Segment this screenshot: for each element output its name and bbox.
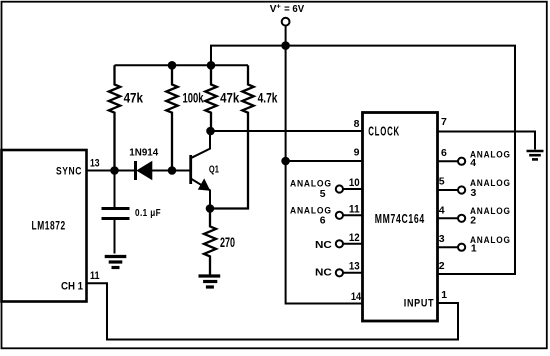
- ground (capacitor): [105, 257, 127, 268]
- IC MM74C164: [363, 113, 438, 322]
- V+ supply terminal: [270, 1, 305, 45]
- ground (270 resistor): [199, 276, 221, 287]
- svg-text:1: 1: [441, 289, 447, 301]
- resistor 47k (second): [205, 65, 239, 131]
- wire Q1 collector to CLOCK pin 8: [211, 130, 363, 132]
- svg-text:5: 5: [439, 176, 445, 188]
- wire pin 7 to ground: [438, 132, 536, 150]
- svg-text:Q1: Q1: [209, 164, 219, 176]
- svg-text:NC: NC: [315, 268, 332, 279]
- resistor 270: [204, 209, 235, 275]
- diode 1N914: [129, 147, 158, 181]
- resistor 4.7k: [210, 65, 278, 208]
- svg-text:INPUT: INPUT: [404, 297, 434, 309]
- pin 10 ANALOG 5: [290, 177, 363, 200]
- svg-text:NC: NC: [315, 240, 332, 251]
- node junction rail/47k: [207, 61, 216, 70]
- svg-text:3: 3: [471, 188, 477, 199]
- svg-text:13: 13: [90, 158, 100, 170]
- pin 4 ANALOG 2: [438, 204, 511, 226]
- svg-text:+: +: [276, 1, 281, 10]
- svg-text:12: 12: [349, 232, 360, 244]
- svg-text:ANALOG: ANALOG: [470, 206, 511, 216]
- svg-text:2: 2: [439, 260, 445, 272]
- svg-text:SYNC: SYNC: [56, 166, 82, 178]
- ground (pin 7): [527, 151, 544, 159]
- svg-text:4.7k: 4.7k: [258, 90, 278, 106]
- svg-text:7: 7: [441, 116, 447, 128]
- pin 6 ANALOG 4: [438, 147, 511, 169]
- svg-text:47k: 47k: [124, 90, 144, 106]
- svg-text:6: 6: [441, 147, 447, 159]
- node junction emitter/4.7k/270: [206, 204, 215, 213]
- svg-text:5: 5: [320, 189, 326, 200]
- svg-text:CLOCK: CLOCK: [368, 124, 400, 139]
- transistor Q1: [191, 131, 219, 209]
- resistor 100k: [166, 65, 203, 170]
- svg-text:CH 1: CH 1: [61, 281, 84, 293]
- node junction V+ rail: [281, 41, 290, 50]
- svg-text:47k: 47k: [220, 90, 239, 106]
- svg-text:2: 2: [470, 215, 476, 226]
- wire V+ vertical to pin 9 and pin 14: [286, 46, 363, 304]
- pin 11 ANALOG 6: [290, 204, 363, 227]
- svg-text:1: 1: [471, 244, 477, 255]
- svg-text:4: 4: [439, 204, 445, 216]
- svg-text:8: 8: [354, 118, 360, 130]
- svg-text:9: 9: [354, 146, 360, 158]
- pin 5 ANALOG 3: [438, 176, 511, 199]
- pin 3 ANALOG 1: [438, 233, 511, 254]
- IC LM1872: [2, 150, 87, 302]
- wire pin 9: [286, 160, 363, 162]
- node junction collector/pin8: [206, 127, 215, 136]
- node junction 100k top: [168, 61, 177, 70]
- wire CH1 to INPUT pin 1: [87, 283, 459, 339]
- svg-text:LM1872: LM1872: [32, 220, 66, 233]
- node junction SYNC/diode/cap: [110, 166, 119, 175]
- wire diode to base: [152, 170, 191, 172]
- svg-text:10: 10: [349, 177, 360, 189]
- svg-text:100k: 100k: [183, 90, 204, 106]
- svg-text:= 6V: = 6V: [284, 4, 304, 15]
- svg-text:4: 4: [470, 158, 476, 169]
- svg-text:ANALOG: ANALOG: [470, 150, 511, 160]
- svg-text:3: 3: [439, 233, 445, 245]
- svg-text:ANALOG: ANALOG: [470, 178, 511, 188]
- resistor 47k (first): [109, 65, 143, 170]
- svg-text:270: 270: [220, 234, 235, 250]
- svg-text:0.1 μF: 0.1 μF: [135, 208, 161, 219]
- svg-text:11: 11: [90, 270, 100, 282]
- svg-text:13: 13: [349, 261, 360, 273]
- svg-text:11: 11: [349, 204, 360, 216]
- svg-text:6: 6: [320, 215, 326, 226]
- svg-text:ANALOG: ANALOG: [290, 205, 332, 215]
- svg-text:ANALOG: ANALOG: [290, 179, 332, 189]
- svg-text:1N914: 1N914: [129, 147, 158, 159]
- wire SYNC to diode: [87, 170, 136, 172]
- pin 12 NC: [315, 232, 363, 251]
- svg-text:MM74C164: MM74C164: [375, 212, 425, 226]
- pin 13 NC: [315, 261, 363, 279]
- svg-text:14: 14: [351, 291, 362, 303]
- node junction pin 9 tap: [281, 157, 290, 166]
- capacitor 0.1uF: [102, 171, 162, 254]
- wire resistor feed line: [115, 64, 249, 66]
- node junction diode/100k/base: [168, 166, 177, 175]
- wire V+ rail: [211, 46, 515, 274]
